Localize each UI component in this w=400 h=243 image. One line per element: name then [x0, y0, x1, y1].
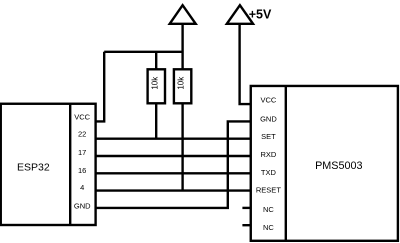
svg-text:SET: SET	[261, 132, 276, 141]
svg-text:ESP32: ESP32	[17, 162, 50, 174]
svg-text:RESET: RESET	[256, 185, 281, 194]
ESP32 pin-column divider	[69, 104, 71, 225]
svg-text:VCC: VCC	[74, 113, 90, 122]
wire ESP32 pin 4 to PMS5003 RESET	[96, 189, 251, 191]
wire ESP32 pin 16 to PMS5003 TXD	[96, 172, 251, 174]
svg-text:10k: 10k	[176, 76, 185, 90]
svg-text:NC: NC	[263, 205, 274, 214]
svg-text:VCC: VCC	[260, 96, 276, 105]
component PMS5003 box	[251, 86, 398, 241]
svg-text:GND: GND	[74, 202, 91, 211]
svg-text:RXD: RXD	[260, 150, 276, 159]
svg-text:TXD: TXD	[261, 168, 277, 177]
svg-text:GND: GND	[260, 114, 277, 123]
wire R2 bottom lead to RESET net	[181, 103, 183, 190]
wire ESP32 pin 22 to PMS5003 SET	[96, 137, 251, 139]
svg-text:22: 22	[78, 130, 86, 139]
power symbol +5V (right triangle)	[227, 5, 253, 24]
svg-text:NC: NC	[263, 223, 274, 232]
wire +5V stem to PMS5003 VCC	[240, 24, 251, 104]
pin stub PMS5003 NC 2	[242, 224, 250, 226]
wire R1 bottom lead to SET net	[155, 103, 157, 138]
wire ESP32 GND to PMS5003 GND	[96, 121, 251, 207]
component ESP32 box	[1, 104, 96, 225]
svg-text:+5V: +5V	[249, 7, 272, 21]
power symbol (left triangle)	[170, 5, 196, 24]
wire stem of left power triangle down to R2 top	[181, 24, 183, 70]
PMS5003 pin-column divider	[285, 86, 287, 241]
wire R1 top lead	[155, 52, 157, 70]
svg-text:PMS5003: PMS5003	[315, 160, 362, 172]
wire ESP32 pin 17 to PMS5003 RXD	[96, 155, 251, 157]
pin stub PMS5003 NC 1	[242, 207, 250, 209]
svg-text:16: 16	[78, 166, 86, 175]
svg-text:4: 4	[80, 183, 84, 192]
svg-text:17: 17	[78, 148, 86, 157]
wire top rail	[104, 51, 182, 53]
svg-text:10k: 10k	[150, 76, 159, 90]
resistor R2 body	[174, 69, 191, 103]
wire ESP32 VCC pin to top rail	[96, 52, 105, 122]
resistor R1 body	[148, 69, 165, 103]
